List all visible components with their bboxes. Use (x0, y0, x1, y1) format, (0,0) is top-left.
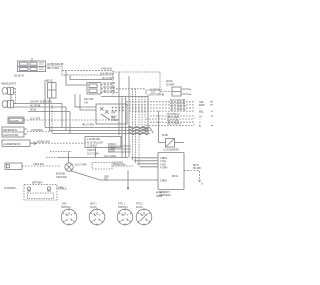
svg-text:SWITCH: SWITCH (118, 205, 128, 209)
svg-text:REVERSE AI: REVERSE AI (3, 128, 17, 132)
svg-text:16 LT GRN: 16 LT GRN (87, 151, 99, 155)
svg-text:12 RD: 12 RD (162, 133, 169, 137)
wire fuse out 2 (181, 94, 191, 95)
wire w6 (146, 118, 195, 119)
svg-text:OFF: OFF (111, 111, 116, 115)
wire bus 3 (52, 133, 150, 135)
central loom verticals (119, 72, 148, 167)
svg-text:KEY: KEY (62, 201, 67, 205)
light switch S2 (87, 83, 101, 95)
wire module in 4 (140, 166, 158, 168)
right terminal labels (199, 100, 205, 128)
wire ground diagonal (71, 171, 159, 180)
connector bumps (inline pair) (146, 90, 160, 95)
wire module out right (184, 171, 200, 181)
wire fuse out 1 (181, 89, 191, 90)
lamp L2 (right headlight) (2, 100, 13, 107)
wire stub row (28, 111, 70, 113)
wire lamp jumper (10, 94, 12, 100)
connector view C3 (117, 208, 133, 226)
label SEE FIG (104, 174, 109, 181)
label CL SOLENOID (163, 148, 179, 152)
label 4F BLK WH (113, 163, 126, 167)
wire drop x62 (61, 104, 63, 128)
svg-text:1-B: 1-B (84, 100, 88, 104)
module row labels (160, 156, 178, 183)
labels loom stubs (108, 142, 116, 152)
label A BLK RD (33, 162, 44, 166)
wire w2 (126, 104, 195, 105)
svg-text:4C OR BL: 4C OR BL (30, 104, 41, 108)
wire stub to loom 2 (108, 148, 131, 150)
label 4E BL (30, 107, 37, 111)
label 4C LT GRN rows (103, 81, 115, 93)
wire loom drop to connector (127, 170, 129, 189)
wire 4C LT GRN upper (70, 75, 112, 80)
svg-text:4B LT GRN: 4B LT GRN (103, 89, 115, 93)
wire reverse switch (27, 131, 52, 133)
svg-text:4B LT GRN 1: 4B LT GRN 1 (167, 122, 181, 126)
svg-text:5 BRN: 5 BRN (160, 179, 167, 183)
svg-text:4E BL: 4E BL (30, 107, 37, 111)
svg-text:20 AMP: 20 AMP (166, 82, 175, 86)
label B0 NC (above resistor) (46, 79, 53, 83)
connector view C1 label (61, 201, 71, 208)
label ENGINE GROUND (56, 172, 67, 179)
svg-text:4 RD WH: 4 RD WH (101, 66, 112, 70)
labels on right wires (167, 98, 186, 126)
wire ammeter (36, 142, 85, 144)
wire solenoid out (175, 142, 185, 144)
wire light switch out A (101, 84, 113, 86)
wire stub to loom 3 (108, 151, 131, 153)
wire coil diagonal (142, 128, 153, 133)
svg-text:GROUND: GROUND (56, 175, 67, 179)
svg-text:FR RW: FR RW (193, 166, 201, 170)
label 16 RD WH / 16 BROWN (47, 62, 64, 70)
svg-text:PLUG: PLUG (90, 205, 97, 209)
reverse caution switch box (2, 127, 27, 137)
label 16 LT GRN (75, 162, 87, 166)
svg-text:1B 16 GA: 1B 16 GA (14, 74, 24, 78)
wire w7 (150, 121, 195, 122)
wire light switch out C (101, 92, 118, 94)
label OFF RUN START (111, 111, 119, 123)
label note bottom right (156, 191, 164, 198)
wire riser x45 (44, 80, 46, 128)
svg-text:16 RD BLK--: 16 RD BLK-- (4, 186, 17, 190)
label 12 RD (162, 133, 169, 137)
wire A BLK RD (22, 165, 60, 167)
wire stub to loom 1 (108, 145, 131, 147)
wire 4C OR BL (14, 106, 66, 108)
wire w4 (129, 110, 195, 111)
clutch solenoid K1 (166, 139, 175, 148)
battery BT1 (24, 185, 57, 201)
svg-text:PTO 1: PTO 1 (118, 201, 125, 205)
switch base connector box (85, 137, 121, 148)
wire w8 (146, 124, 195, 125)
wire module in 2 (134, 160, 158, 162)
lamp L1 (left headlight) (2, 87, 13, 94)
wire drop to light switch (66, 71, 87, 86)
svg-text:HEADLIGHTS: HEADLIGHTS (1, 82, 16, 86)
label 16A RD WH (100, 71, 114, 75)
svg-text:G 16 BLK: G 16 BLK (87, 144, 97, 148)
label 4B LT GRN (82, 123, 94, 127)
svg-text:4B LT GRN: 4B LT GRN (47, 66, 59, 70)
label 4 RD (58, 186, 64, 190)
wire long mid (46, 157, 57, 159)
loom coil marks on buses (128, 126, 148, 134)
connector view C3 label (118, 201, 128, 208)
svg-text:LIGHTS: LIGHTS (10, 119, 19, 123)
wire solenoid drop (159, 111, 166, 142)
svg-text:GND 1A: GND 1A (87, 148, 96, 152)
label 4C LT GRN upper (102, 76, 114, 80)
svg-text:A BLK RD: A BLK RD (33, 162, 44, 166)
svg-text:4C LT GRN: 4C LT GRN (103, 81, 115, 85)
svg-text:B&L: B&L (199, 109, 204, 113)
wire light switch out B (101, 88, 146, 90)
svg-text:PLUG: PLUG (136, 205, 143, 209)
ammeter bar (2, 140, 36, 146)
svg-text:CL SOLENOID: CL SOLENOID (163, 148, 179, 152)
ground stud B+ (65, 163, 73, 171)
wire fuse feed (160, 91, 172, 93)
wire headlight drop (14, 89, 16, 104)
svg-text:16A OR--16 BROWN: 16A OR--16 BROWN (30, 100, 52, 104)
svg-text:KEY SW: KEY SW (84, 97, 94, 101)
svg-text:4C LT GRN: 4C LT GRN (102, 76, 114, 80)
arrow module out (199, 180, 201, 182)
svg-text:4C LT GRN: 4C LT GRN (103, 85, 115, 89)
svg-text:CAUTION SW: CAUTION SW (3, 133, 19, 137)
wire ground to loom (112, 165, 133, 167)
wire key in 1 (75, 94, 96, 107)
wire riser x49.5 (49, 98, 51, 131)
wire 16A RD WH (62, 71, 113, 76)
battery core (28, 193, 54, 199)
svg-text:4 RD: 4 RD (58, 186, 64, 190)
left small connector box (5, 163, 22, 169)
connector view C2 (89, 208, 105, 226)
label 4E BLK WH (37, 140, 50, 144)
wire bus 1 (45, 127, 150, 129)
connector J1 (interlock module, top-left) (18, 58, 46, 72)
wire w5 (150, 115, 195, 116)
svg-text:16 RD WH--: 16 RD WH-- (150, 88, 163, 92)
svg-text:4B LT GRN: 4B LT GRN (82, 123, 94, 127)
label B2 W FR RW (193, 163, 203, 186)
label 16 LT GRN 4B (149, 93, 164, 97)
svg-text:A AMMETER 30: A AMMETER 30 (3, 142, 21, 146)
connector view C4 (136, 208, 152, 226)
resistor block (left riser) (48, 83, 57, 99)
wire gnd stud riser (68, 152, 70, 163)
label 16 LT GR (30, 117, 40, 121)
wire 4 RD WH (top feed) (46, 66, 114, 71)
wire group right: w1 (126, 101, 195, 102)
wire w3 (129, 107, 195, 108)
battery terminal - (47, 187, 51, 191)
svg-text:4D LT GRN 4B: 4D LT GRN 4B (170, 107, 186, 111)
svg-text:16 LT GRN 4B: 16 LT GRN 4B (149, 93, 164, 97)
svg-text:PTO 2: PTO 2 (136, 201, 143, 205)
label BATTERY (32, 180, 43, 184)
key switch S1 (96, 104, 127, 124)
lights box (left) (8, 117, 24, 123)
wire drop x66 (65, 107, 67, 131)
label 16 RD BLK (31, 128, 43, 132)
key switch S1 label (84, 97, 94, 104)
svg-text:FUSE: FUSE (166, 79, 173, 83)
wire 16 LT GRN 4B long (101, 96, 148, 98)
wire gnd drop (95, 148, 97, 158)
wire bus 2 (50, 130, 151, 132)
svg-text:16A RD WH: 16A RD WH (100, 71, 114, 75)
label 16 RD BLK (4, 186, 17, 190)
svg-text:16 LT GR: 16 LT GR (30, 117, 40, 121)
svg-text:BATTERY: BATTERY (32, 180, 43, 184)
svg-text:B2 W: B2 W (172, 174, 178, 178)
connector view C4 label (136, 201, 143, 208)
svg-text:4C BROWN 4B: 4C BROWN 4B (47, 62, 64, 66)
wire gnd link (50, 151, 72, 153)
label 4C OR BL (30, 104, 41, 108)
wire key in 2 (80, 94, 96, 110)
wire lights dashed bus (24, 119, 118, 121)
label 16A OR (30, 100, 52, 104)
harness loom (dashed run, top middle) (113, 71, 160, 97)
right margin ticks (210, 102, 213, 126)
label 4 B 16 RD (112, 160, 123, 164)
module bottom label (159, 190, 171, 197)
fuse F1 (172, 87, 181, 96)
label 16 RD WH (fuse feed) (150, 88, 163, 92)
ground label box (92, 163, 112, 170)
label 4 RD WH (101, 66, 112, 70)
svg-text:4B5: 4B5 (111, 116, 116, 120)
fuse F1 label (166, 79, 175, 86)
label 1B 16 GA (under connector) (14, 74, 24, 78)
label HEADLIGHTS (1, 82, 16, 86)
svg-text:VIEW: VIEW (156, 194, 163, 198)
svg-text:4 GRN: 4 GRN (160, 166, 167, 170)
label rows in connector (87, 137, 117, 158)
module connector box (right) (158, 153, 184, 190)
connector view C1 (61, 208, 77, 226)
wire drop x52 (51, 105, 53, 134)
svg-text:FIG: FIG (104, 178, 108, 182)
svg-text:B0 NC: B0 NC (46, 79, 53, 83)
battery terminal + (27, 187, 31, 191)
connector view C2 label (90, 201, 97, 208)
wire lamp1 to loom (14, 89, 16, 93)
label 4B5 (loom left) (111, 116, 116, 120)
wire 16A OR (lamp feed) (14, 103, 62, 105)
wire drop x70 (69, 112, 71, 134)
label 4 GR BLK (56, 187, 67, 191)
wire module in 3 (137, 163, 158, 165)
svg-text:16 LT GRN: 16 LT GRN (75, 162, 87, 166)
svg-text:G: G (201, 182, 203, 186)
svg-text:KEY 1: KEY 1 (90, 201, 97, 205)
wire module in 1 (131, 157, 158, 159)
